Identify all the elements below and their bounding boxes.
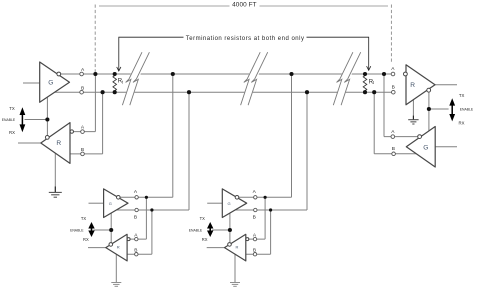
svg-text:ENABLE: ENABLE — [189, 229, 203, 233]
svg-text:R: R — [56, 140, 61, 147]
svg-text:R: R — [410, 82, 415, 89]
svg-text:G: G — [48, 80, 53, 87]
svg-text:B: B — [81, 85, 84, 91]
svg-text:ENABLE: ENABLE — [460, 107, 474, 111]
svg-text:TX: TX — [200, 216, 206, 221]
svg-text:TX: TX — [81, 216, 87, 221]
svg-text:B: B — [81, 147, 84, 153]
svg-text:Termination resistors at both: Termination resistors at both end only — [186, 36, 305, 42]
svg-text:B: B — [134, 215, 137, 221]
svg-text:RX: RX — [83, 237, 89, 242]
svg-text:B: B — [253, 215, 256, 221]
svg-text:ENABLE: ENABLE — [2, 118, 16, 122]
svg-text:RX: RX — [9, 130, 15, 135]
svg-text:B: B — [253, 248, 256, 254]
svg-text:G: G — [227, 201, 230, 206]
svg-text:R: R — [235, 244, 238, 249]
svg-text:RX: RX — [202, 237, 208, 242]
svg-text:RX: RX — [459, 121, 465, 126]
svg-text:TX: TX — [459, 93, 465, 98]
svg-text:G: G — [109, 201, 112, 206]
svg-text:B: B — [392, 84, 395, 90]
svg-text:B: B — [392, 146, 395, 152]
svg-text:G: G — [423, 144, 428, 151]
svg-text:TX: TX — [9, 106, 15, 111]
svg-text:B: B — [134, 248, 137, 254]
svg-text:R: R — [117, 244, 120, 249]
svg-text:ENABLE: ENABLE — [70, 229, 84, 233]
svg-text:4000 FT: 4000 FT — [232, 2, 257, 9]
